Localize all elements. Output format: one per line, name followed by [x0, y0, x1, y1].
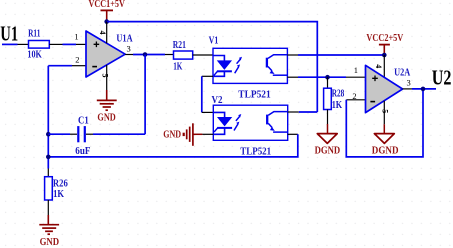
pin 4 wire (U1A power)	[106, 22, 108, 44]
svg-text:R21: R21	[173, 40, 186, 51]
svg-text:3: 3	[127, 44, 131, 54]
V2 light arrows	[236, 116, 240, 121]
svg-text:VCC2+5V: VCC2+5V	[366, 33, 404, 44]
wire U2A output to port U2	[403, 88, 412, 90]
power port VCC2+5V	[366, 33, 404, 55]
wire U1A pin2 from node A	[48, 65, 72, 67]
wire VCC1 node to V2 collector (top rail, down at right)	[107, 22, 318, 112]
svg-text:10K: 10K	[27, 49, 42, 60]
power port GND (analog) at V2 LED cathode	[163, 123, 213, 146]
V1 LED	[213, 56, 224, 61]
svg-text:U1: U1	[0, 22, 18, 46]
optocoupler V1	[209, 35, 288, 100]
node A vertical (U1A pin2 / C1 / R26)	[47, 66, 49, 169]
capacitor C1	[48, 116, 145, 158]
svg-text:5: 5	[381, 109, 390, 113]
svg-text:2: 2	[75, 54, 79, 64]
svg-text:R26: R26	[53, 178, 68, 189]
svg-text:GND: GND	[163, 130, 181, 141]
svg-text:3: 3	[407, 78, 411, 88]
svg-text:DGND: DGND	[372, 146, 399, 157]
ground GND below R26	[39, 215, 59, 248]
wire R11 to U1A pin1	[49, 43, 62, 45]
svg-text:GND: GND	[40, 237, 60, 248]
svg-text:6uF: 6uF	[75, 146, 90, 157]
svg-text:R11: R11	[28, 28, 40, 39]
junction VCC1 node	[104, 19, 109, 24]
svg-text:U2: U2	[432, 65, 452, 89]
power port DGND below U2A	[372, 124, 399, 156]
svg-text:V2: V2	[212, 95, 223, 106]
svg-text:5: 5	[100, 74, 109, 78]
svg-text:1: 1	[354, 65, 358, 75]
resistor R28	[324, 77, 345, 124]
wire V2 collector stub	[288, 111, 299, 113]
pin 4 wire (U2A power)	[383, 55, 385, 80]
wire V1 emitter to U2A pin1	[287, 76, 298, 78]
wire V1 collector to VCC2 node	[287, 54, 298, 56]
svg-text:DGND: DGND	[315, 146, 341, 157]
wire C1 right up to output node	[144, 55, 146, 135]
op-amp U1A	[86, 31, 133, 77]
V2 phototransistor	[268, 112, 287, 116]
wire V2 emitter feedback to node A (bottom rail)	[288, 133, 298, 135]
junction output node	[143, 52, 148, 57]
svg-text:R28: R28	[332, 88, 345, 99]
resistor R26	[45, 169, 68, 216]
op-amp U2A	[366, 65, 411, 112]
pin 5 wire (U1A)	[106, 65, 108, 90]
wire output U1A to node and R21	[125, 54, 133, 56]
svg-text:C1: C1	[78, 116, 89, 127]
svg-text:GND: GND	[97, 112, 115, 123]
junction node A / bottom rail	[46, 155, 51, 160]
svg-text:2: 2	[352, 91, 356, 101]
wire U1 to R11	[2, 43, 18, 45]
V1 phototransistor	[268, 55, 287, 59]
junction node A / C1	[46, 132, 51, 137]
ground GND below U1A	[97, 90, 117, 123]
junction VCC2 node	[382, 53, 387, 58]
optocoupler V2	[212, 95, 288, 158]
junction U2 output node	[421, 87, 426, 92]
svg-text:1K: 1K	[53, 189, 64, 200]
power port VCC1+5V	[89, 0, 126, 22]
wire R21 to V1 anode	[193, 54, 213, 56]
wire V1 cathode to V2 anode	[202, 75, 213, 77]
svg-text:1K: 1K	[173, 61, 182, 72]
V2 LED	[213, 112, 224, 117]
svg-text:1K: 1K	[332, 100, 343, 111]
pin 5 wire (U2A)	[383, 101, 385, 125]
V1 light arrows	[237, 59, 241, 64]
svg-text:TLP521: TLP521	[238, 90, 270, 101]
svg-text:V1: V1	[209, 35, 219, 46]
svg-text:4: 4	[98, 31, 107, 35]
power port DGND below R28	[315, 124, 341, 157]
resistor R11	[27, 28, 49, 60]
resistor R21	[173, 40, 193, 72]
svg-text:VCC1+5V: VCC1+5V	[89, 0, 126, 10]
wire U2A pin2 feedback loop	[346, 99, 365, 101]
junction R28 top node	[325, 75, 330, 80]
svg-text:4: 4	[374, 64, 383, 68]
svg-text:1: 1	[74, 31, 78, 41]
